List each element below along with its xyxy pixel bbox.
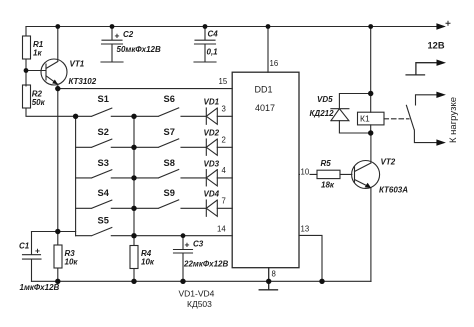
svg-text:C3: C3 <box>193 240 204 249</box>
svg-text:VD5: VD5 <box>317 95 333 104</box>
svg-text:8: 8 <box>272 270 276 279</box>
svg-text:14: 14 <box>217 225 226 234</box>
svg-text:S2: S2 <box>98 127 109 137</box>
svg-text:+: + <box>115 31 120 41</box>
svg-text:10к: 10к <box>141 258 155 267</box>
svg-text:КД503: КД503 <box>187 299 212 309</box>
svg-text:7: 7 <box>222 197 226 206</box>
svg-text:КТ3102: КТ3102 <box>69 77 97 86</box>
svg-text:0,1: 0,1 <box>207 48 219 57</box>
svg-text:DD1: DD1 <box>255 85 273 95</box>
svg-text:S9: S9 <box>164 188 175 198</box>
svg-text:VD4: VD4 <box>204 190 220 199</box>
svg-text:R5: R5 <box>321 159 332 168</box>
svg-text:C2: C2 <box>123 30 134 39</box>
svg-text:4: 4 <box>222 166 227 175</box>
svg-text:18к: 18к <box>321 181 335 190</box>
svg-text:10к: 10к <box>65 258 79 267</box>
svg-text:16: 16 <box>270 59 279 68</box>
svg-text:1мкФх12В: 1мкФх12В <box>20 283 60 292</box>
svg-text:2: 2 <box>222 136 226 145</box>
svg-text:S5: S5 <box>98 216 109 226</box>
svg-text:VD2: VD2 <box>204 129 220 138</box>
svg-text:C1: C1 <box>19 242 30 251</box>
svg-text:13: 13 <box>301 225 310 234</box>
svg-text:C4: C4 <box>208 30 219 39</box>
svg-text:3: 3 <box>222 105 226 114</box>
svg-text:S7: S7 <box>164 127 175 137</box>
svg-text:VD3: VD3 <box>204 160 220 169</box>
svg-text:S8: S8 <box>164 158 175 168</box>
svg-text:КД212: КД212 <box>310 109 335 118</box>
svg-text:К нагрузке: К нагрузке <box>448 97 459 143</box>
svg-text:КТ603А: КТ603А <box>379 186 408 195</box>
svg-text:12В: 12В <box>428 41 445 51</box>
svg-text:VD1: VD1 <box>204 98 220 107</box>
svg-text:VD1-VD4: VD1-VD4 <box>179 289 215 299</box>
svg-text:4017: 4017 <box>255 103 275 113</box>
svg-text:S6: S6 <box>164 94 175 104</box>
svg-text:VT2: VT2 <box>381 158 396 167</box>
svg-text:S1: S1 <box>98 94 109 104</box>
svg-text:22мкФх12В: 22мкФх12В <box>183 260 228 269</box>
svg-text:+: + <box>185 240 190 250</box>
svg-text:S4: S4 <box>98 188 110 198</box>
svg-text:+: + <box>35 246 40 256</box>
svg-text:S3: S3 <box>98 158 109 168</box>
svg-text:15: 15 <box>219 77 228 86</box>
svg-text:50мкФх12В: 50мкФх12В <box>117 45 161 54</box>
svg-text:1к: 1к <box>33 49 42 58</box>
svg-text:50к: 50к <box>32 98 46 107</box>
svg-text:VT1: VT1 <box>70 60 85 69</box>
svg-text:10: 10 <box>301 167 310 176</box>
svg-text:К1: К1 <box>360 113 370 123</box>
